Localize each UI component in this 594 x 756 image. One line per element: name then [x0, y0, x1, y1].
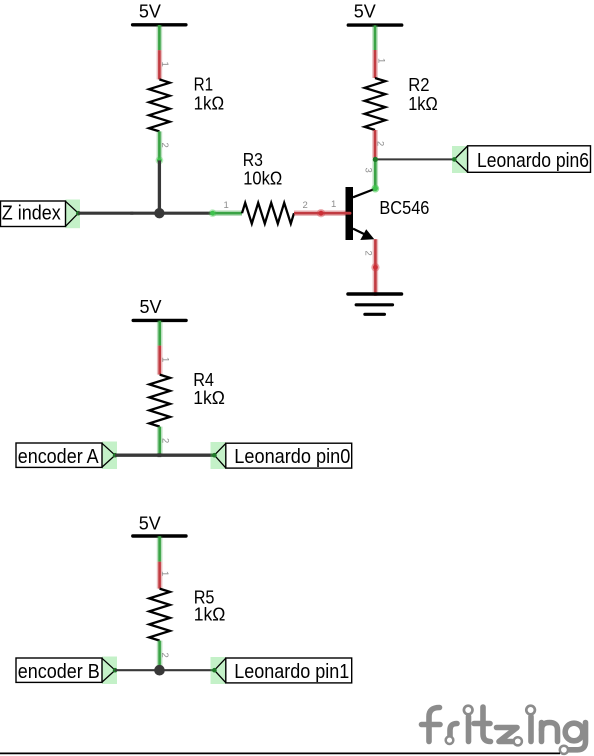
net label encoder A	[16, 442, 117, 470]
net label Leonardo pin6	[452, 146, 591, 173]
resistor R5 pin1 leg (red)	[157, 562, 163, 589]
svg-text:Z index: Z index	[2, 202, 61, 224]
svg-text:1kΩ: 1kΩ	[193, 388, 225, 408]
bendpoint	[130, 212, 133, 215]
svg-text:2: 2	[159, 438, 170, 443]
svg-text:1: 1	[376, 58, 387, 63]
svg-text:1kΩ: 1kΩ	[408, 94, 438, 114]
svg-text:Leonardo pin1: Leonardo pin1	[234, 661, 349, 683]
resistor R3 pin2 leg (red)	[294, 209, 350, 217]
svg-text:1: 1	[159, 357, 170, 362]
svg-text:R4: R4	[193, 370, 214, 390]
value label R3 10kΩ	[243, 150, 283, 189]
svg-text:Leonardo pin0: Leonardo pin0	[234, 446, 350, 468]
svg-text:BC546: BC546	[379, 198, 429, 218]
fritzing logo	[422, 707, 586, 750]
wire 5V to R1 pin1 (green)	[157, 25, 163, 50]
svg-text:R2: R2	[408, 75, 429, 95]
resistor R4 pin2 leg (green)	[157, 427, 163, 456]
svg-text:encoder A: encoder A	[18, 446, 100, 468]
ground	[348, 294, 402, 314]
net label Z index	[1, 200, 81, 229]
svg-text:Leonardo pin6: Leonardo pin6	[477, 150, 589, 172]
transistor Q1 BC546	[346, 187, 376, 240]
wire node B to Leonardo pin6	[375, 158, 454, 160]
resistor R2	[365, 78, 386, 130]
svg-text:R1: R1	[194, 75, 214, 95]
svg-text:5V: 5V	[139, 513, 161, 533]
logo rings	[446, 706, 568, 754]
resistor R4	[149, 375, 170, 427]
power symbol 5V (section 2)	[348, 2, 401, 25]
svg-text:10kΩ: 10kΩ	[243, 168, 282, 188]
junction node C	[158, 453, 162, 457]
wire 5V to R4 pin1 (green)	[157, 321, 163, 346]
value label R2 1kΩ	[408, 75, 438, 114]
wire Z index to node A	[78, 212, 159, 215]
resistor R2 pin1 leg (red)	[372, 50, 378, 78]
power symbol 5V (section 3)	[133, 297, 186, 320]
connection dot R1 pin2	[156, 157, 164, 165]
wire R1 pin2 to node A	[158, 160, 161, 213]
svg-text:2: 2	[374, 141, 385, 146]
svg-text:1kΩ: 1kΩ	[194, 93, 225, 113]
net label encoder B	[16, 657, 117, 685]
value label R5 1kΩ	[194, 587, 226, 624]
junction node D	[154, 665, 165, 676]
svg-text:5V: 5V	[139, 2, 161, 22]
wire Q1 emitter to ground (red)	[371, 239, 379, 296]
svg-text:5V: 5V	[140, 297, 162, 317]
wire node B to Q1 collector (green)	[371, 159, 379, 192]
power symbol 5V (section 4)	[133, 513, 186, 536]
power symbol 5V (section 1)	[133, 2, 186, 25]
svg-text:R3: R3	[243, 150, 263, 170]
svg-text:encoder B: encoder B	[18, 661, 100, 683]
svg-text:3: 3	[362, 168, 373, 173]
wire node A to R3 pin1	[159, 212, 212, 215]
resistor R5	[149, 589, 170, 641]
resistor R1 pin 2 leg (green)	[157, 131, 163, 160]
resistor R2 pin2 leg (red)	[372, 130, 378, 158]
wire R3 to Q1 base overlay (red over bar)	[345, 212, 351, 215]
junction node A	[154, 208, 164, 218]
value label R1 1kΩ	[194, 75, 225, 114]
connection dot Q1 collector	[371, 185, 379, 193]
wire encoder B to Leonardo pin1	[115, 669, 214, 671]
net label Leonardo pin0	[211, 442, 352, 469]
svg-text:1: 1	[159, 571, 170, 576]
resistor R3	[242, 203, 294, 224]
resistor R5 pin2 leg (green)	[157, 641, 163, 671]
resistor R4 pin1 leg (red)	[157, 346, 163, 375]
svg-text:1: 1	[224, 200, 229, 211]
wire 5V to R5 pin1 (green)	[157, 536, 163, 562]
resistor R1	[149, 79, 170, 131]
svg-text:2: 2	[159, 653, 170, 658]
svg-text:2: 2	[159, 143, 170, 148]
junction node B	[373, 157, 378, 162]
resistor R1 pin 1 leg (red)	[157, 50, 163, 79]
svg-text:1: 1	[159, 62, 170, 67]
wire 5V to R2 pin1 (green)	[372, 25, 378, 50]
value label R4 1kΩ	[193, 370, 225, 408]
net label Leonardo pin1	[211, 657, 352, 684]
svg-text:1kΩ: 1kΩ	[194, 605, 226, 625]
svg-text:1: 1	[331, 199, 336, 210]
wire encoder A to Leonardo pin0	[115, 454, 214, 457]
resistor R3 pin1 leg (green)	[209, 209, 242, 217]
footer line	[0, 752, 560, 754]
svg-text:2: 2	[363, 251, 374, 256]
svg-text:5V: 5V	[354, 2, 376, 22]
svg-text:2: 2	[303, 200, 308, 211]
